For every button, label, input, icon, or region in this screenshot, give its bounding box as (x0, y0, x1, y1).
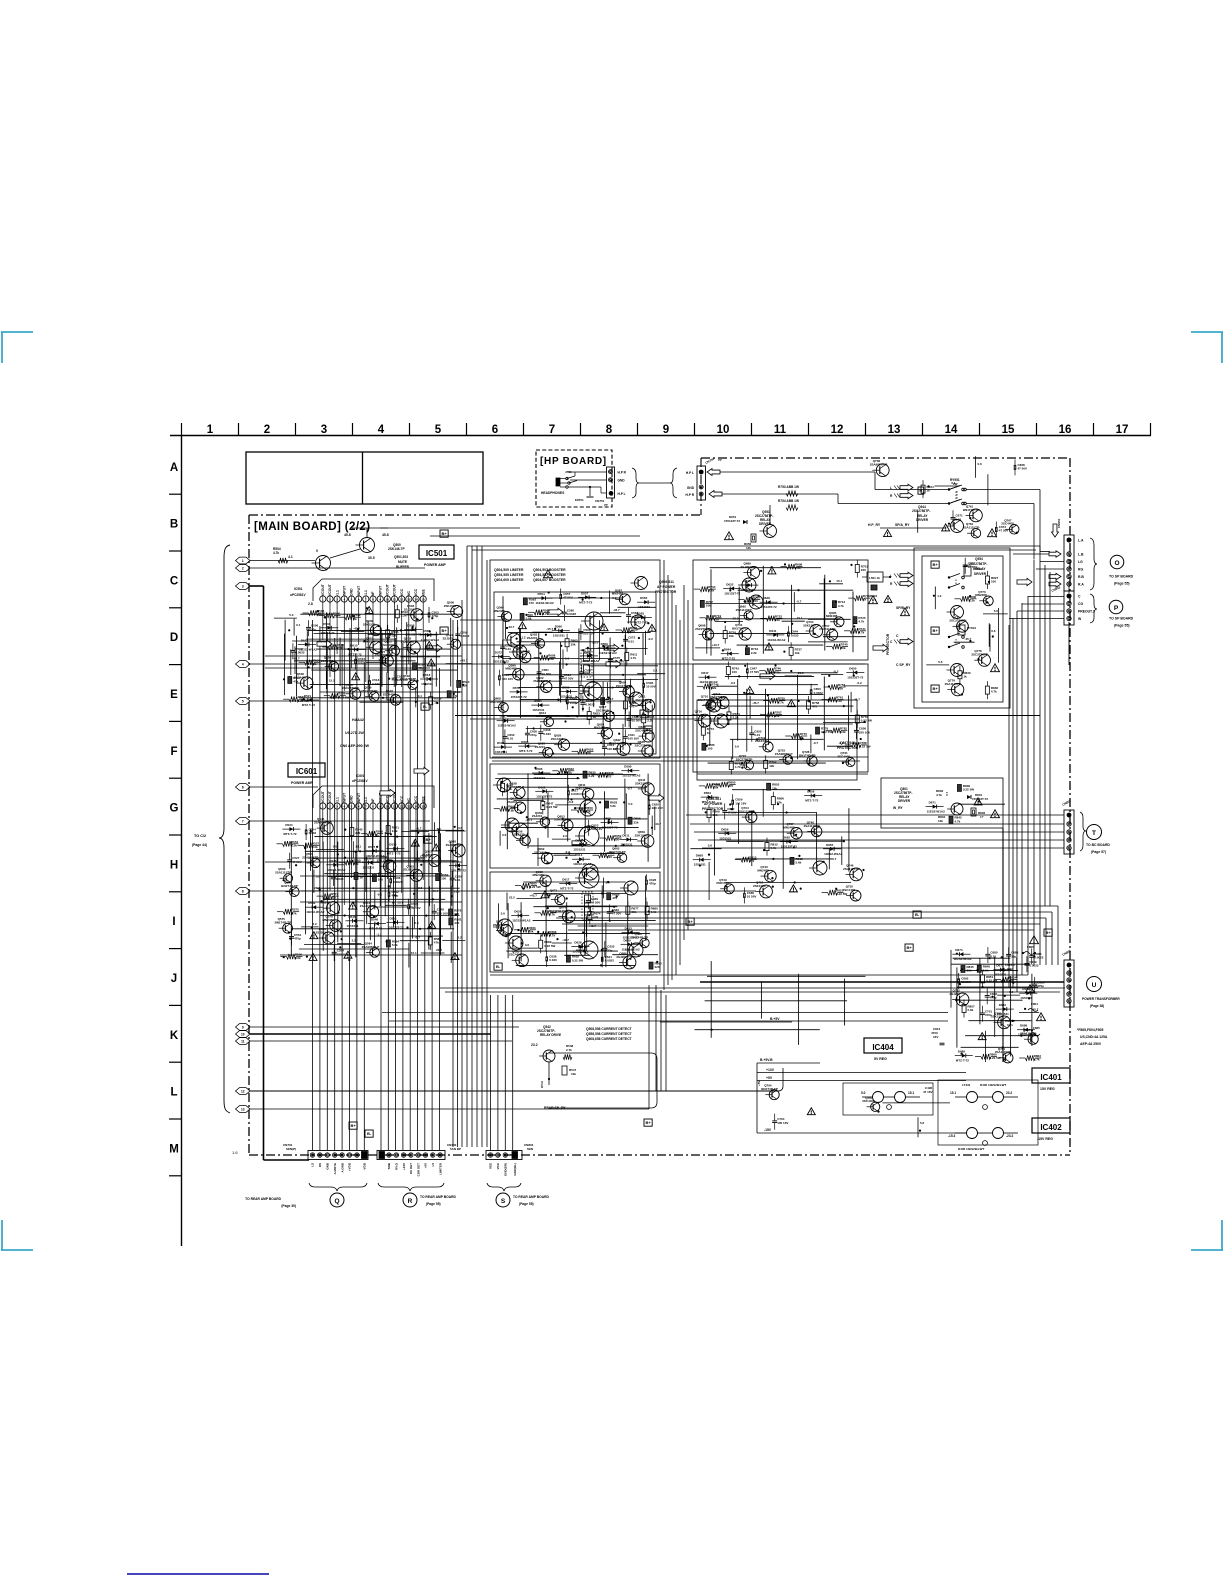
transistor QP18 (512, 823, 528, 839)
connector CN754 (697, 466, 706, 500)
resistor R701 (855, 564, 859, 572)
wire (552, 942, 572, 944)
svg-text:47 50V: 47 50V (292, 860, 302, 864)
wire pin 5 drop (351, 809, 353, 878)
wire (299, 948, 409, 950)
svg-text:11ES2-W1A2: 11ES2-W1A2 (824, 852, 843, 856)
svg-text:2SC4408: 2SC4408 (843, 888, 856, 892)
svg-text:2SC2786TP-: 2SC2786TP- (949, 619, 966, 623)
wire (516, 964, 636, 966)
wire box out1 (693, 560, 868, 660)
capacitor C566 (578, 631, 583, 633)
svg-text:2SJ201: 2SJ201 (741, 565, 752, 569)
svg-text:-0.7: -0.7 (565, 850, 571, 854)
wire (717, 685, 738, 687)
svg-text:-15V: -15V (764, 1128, 772, 1132)
resistor R821 (828, 890, 838, 895)
resistor R839 (957, 784, 961, 791)
diode D611 (626, 838, 630, 842)
pin 12 (399, 596, 405, 602)
transistor QP19 (582, 864, 598, 880)
diode D521 (308, 698, 312, 702)
wire (629, 679, 631, 729)
resistor R551 (386, 826, 390, 834)
transistor Q695 (834, 617, 844, 627)
svg-text:2: 2 (242, 566, 244, 570)
svg-text:14: 14 (945, 424, 958, 436)
diode D599 (628, 769, 632, 773)
wire (782, 804, 784, 889)
diode D551 (394, 920, 398, 924)
wire (622, 724, 624, 750)
svg-text:TO C/2: TO C/2 (194, 834, 206, 838)
svg-text:0.22 5W: 0.22 5W (530, 885, 541, 889)
diode D629 (627, 942, 631, 946)
svg-text:470p: 470p (649, 882, 656, 886)
wire (737, 804, 739, 844)
resistor R506 (324, 613, 334, 618)
svg-text:15: 15 (1002, 424, 1015, 436)
svg-text:2SC2786TP-: 2SC2786TP- (736, 757, 753, 761)
svg-text:2SC4408: 2SC4408 (635, 729, 648, 733)
wire bus CN702 risers (380, 628, 382, 1150)
transistor QP16 (580, 800, 596, 816)
wire (765, 689, 767, 742)
left group brace (219, 545, 230, 1113)
wire (917, 1117, 919, 1137)
transistor Q512 (370, 641, 383, 654)
wire (250, 1040, 512, 1042)
wire (759, 684, 818, 686)
diode D587 (504, 719, 508, 723)
resistor R569 (436, 874, 440, 881)
svg-text:3: 3 (321, 424, 327, 436)
svg-text:5.6k: 5.6k (295, 956, 301, 960)
resistor R716 (854, 595, 864, 600)
transistor Q563 (410, 869, 422, 881)
wire (627, 894, 629, 965)
wire pin 2 drop (329, 809, 331, 891)
svg-text:470: 470 (728, 784, 733, 788)
svg-text:4.7k: 4.7k (1034, 1058, 1040, 1062)
resistor R575 (283, 909, 293, 914)
svg-text:D557: D557 (581, 591, 589, 595)
pin (488, 1153, 492, 1157)
pin filled (512, 1152, 518, 1159)
warning triangle (901, 608, 910, 616)
wire (714, 723, 853, 725)
transistor Q569 (327, 902, 340, 915)
svg-text:5.6: 5.6 (920, 1121, 925, 1125)
wire (917, 510, 919, 533)
wire (934, 587, 936, 610)
svg-text:D620: D620 (514, 910, 522, 914)
transistor Q539 (369, 692, 379, 702)
svg-text:155133T-72: 155133T-72 (511, 695, 527, 699)
transistor Q620 (601, 728, 612, 739)
pin (503, 1153, 507, 1157)
wire (560, 642, 562, 703)
boxed label B+ (905, 944, 913, 951)
capacitor C572 (623, 638, 628, 640)
wire (810, 735, 812, 754)
svg-text:D548: D548 (371, 918, 379, 922)
svg-text:2SA1115TP-: 2SA1115TP- (275, 871, 292, 875)
svg-text:5.0: 5.0 (414, 921, 419, 925)
svg-text:D536: D536 (364, 857, 372, 861)
svg-text:1S51531: 1S51531 (495, 750, 507, 754)
capacitor C629 (586, 900, 591, 902)
transistor Q593 (535, 639, 545, 649)
resistor R785 (702, 743, 706, 750)
wire (534, 774, 583, 776)
wire box relay outer (914, 548, 1010, 708)
svg-text:-1.1: -1.1 (335, 797, 339, 803)
warning mark (789, 885, 797, 892)
wire (934, 485, 959, 487)
svg-text:2.2k: 2.2k (401, 613, 407, 617)
pin 10 (384, 596, 390, 602)
brace P (1090, 594, 1097, 623)
wire (507, 903, 509, 958)
warning mark (884, 530, 892, 537)
main board border top (249, 514, 701, 516)
resistor R956 boxed (751, 534, 756, 542)
pin 5 (348, 803, 354, 809)
capacitor C686 (1029, 955, 1034, 957)
transistor Q530 (300, 677, 313, 690)
transistor QP13 (509, 936, 523, 950)
svg-text:D581: D581 (562, 686, 570, 690)
warning (884, 595, 892, 602)
capacitor C698 (985, 995, 990, 997)
wire pin 13 drop (408, 809, 410, 866)
wire (578, 925, 649, 927)
svg-text:RY.O: RY.O (540, 1080, 544, 1088)
svg-text:MN2488: MN2488 (826, 614, 838, 618)
main board border left (248, 515, 250, 1155)
svg-text:-0.2: -0.2 (730, 681, 736, 685)
svg-text:2.2: 2.2 (352, 939, 357, 943)
transistor Q665 (617, 853, 626, 862)
transistor Q524 (329, 662, 339, 672)
svg-text:C SP_RY: C SP_RY (896, 663, 911, 667)
wire (608, 591, 610, 614)
wire (880, 527, 945, 529)
wire (250, 1108, 649, 1110)
wire thick right edge (1002, 828, 1004, 1062)
resistor R608 (540, 655, 550, 660)
wire (624, 779, 626, 799)
svg-text:470: 470 (749, 859, 754, 863)
wire (824, 575, 826, 651)
wire pin 10 drop (386, 809, 388, 879)
svg-text:MN2488: MN2488 (975, 593, 987, 597)
svg-text:GND: GND (350, 588, 354, 596)
capacitor C641 (600, 957, 602, 962)
transistor Q542 (390, 695, 401, 706)
svg-text:(Page 55): (Page 55) (1114, 582, 1130, 586)
svg-text:Q501,503: Q501,503 (394, 555, 408, 559)
diode D617 (566, 881, 570, 885)
svg-text:MTZ-T-72: MTZ-T-72 (805, 799, 818, 803)
wire (440, 833, 442, 955)
wire (588, 665, 658, 667)
wire (732, 740, 734, 760)
svg-text:0.1: 0.1 (418, 694, 423, 698)
svg-text:4.1: 4.1 (288, 555, 293, 559)
wire (695, 1029, 820, 1031)
svg-text:S: S (501, 1198, 506, 1205)
svg-text:10 50V: 10 50V (968, 565, 978, 569)
svg-text:MTZ-T-72: MTZ-T-72 (369, 927, 382, 931)
diode D593 (525, 744, 529, 748)
boxed label B- (913, 911, 921, 918)
diode D506 (411, 628, 415, 632)
svg-text:11ES2-W1A2: 11ES2-W1A2 (953, 957, 972, 961)
svg-text:45.8: 45.8 (382, 533, 389, 537)
svg-text:B+: B+ (932, 562, 938, 567)
svg-text:W_RY: W_RY (893, 806, 903, 810)
svg-text:2.8: 2.8 (308, 602, 313, 606)
transistor Q632 (617, 743, 630, 756)
pin (310, 1153, 314, 1157)
transistor Q704 (810, 625, 823, 638)
svg-text:100: 100 (732, 670, 737, 674)
resistor R698 (787, 564, 797, 569)
wire (584, 797, 586, 831)
svg-text:47 50V: 47 50V (750, 670, 760, 674)
svg-text:MN2488: MN2488 (494, 609, 506, 613)
pin 15 (420, 803, 426, 809)
pin 2 (327, 596, 333, 602)
wire (827, 745, 852, 747)
fuse F804 (1028, 1009, 1038, 1012)
resistor R788 (851, 742, 861, 747)
svg-text:0.22 5W: 0.22 5W (963, 788, 974, 792)
svg-text:15.1: 15.1 (836, 579, 842, 583)
wire box relay (922, 556, 1003, 702)
node 4 chevron (236, 661, 251, 668)
svg-text:H.P R: H.P R (618, 471, 627, 475)
resistor R740 (832, 644, 842, 649)
svg-text:4.7k: 4.7k (273, 551, 279, 555)
transistor Q797 (871, 1102, 880, 1111)
svg-text:12: 12 (241, 1089, 245, 1093)
svg-text:MTZ-T-72: MTZ-T-72 (387, 852, 400, 856)
transistor Q557 (429, 855, 441, 867)
diode D536 (368, 861, 372, 865)
resistor R617 (601, 698, 605, 705)
resistor R629 (578, 749, 588, 754)
resistor R590 (286, 954, 296, 959)
transistor Q656 (520, 835, 530, 845)
svg-text:47k: 47k (434, 941, 439, 945)
wire (371, 833, 373, 855)
transistor Q605 (623, 686, 634, 697)
svg-text:23.2: 23.2 (1006, 1091, 1012, 1095)
resistor R713 (832, 601, 836, 608)
wire (355, 851, 357, 957)
connector circle U (1087, 977, 1102, 992)
svg-text:D626: D626 (574, 940, 582, 944)
pin (387, 1153, 391, 1157)
svg-text:220 10V: 220 10V (437, 911, 448, 915)
svg-text:5.0: 5.0 (565, 657, 570, 661)
pin (355, 1153, 359, 1157)
svg-text:10k: 10k (841, 646, 846, 650)
transistor Q545 (321, 822, 334, 835)
svg-text:9: 9 (242, 1025, 244, 1029)
wire mid verticals (663, 560, 665, 990)
svg-text:33p: 33p (420, 858, 425, 862)
transistor Q515 (389, 646, 399, 656)
svg-text:15.1: 15.1 (950, 1091, 956, 1095)
svg-text:1S51531: 1S51531 (1020, 996, 1032, 1000)
brace left of CN754 (670, 468, 677, 498)
diode D659 (725, 831, 729, 835)
svg-text:GND: GND (687, 486, 695, 490)
signal arrow (1017, 578, 1032, 586)
wire (710, 961, 712, 1038)
wire pin 8 drop (372, 602, 374, 659)
resistor R806 (771, 797, 775, 805)
wire (965, 1035, 1039, 1037)
main board border right (1069, 458, 1071, 1155)
brace T (1080, 812, 1086, 851)
svg-text:D405 11ES2B4-WT: D405 11ES2B4-WT (980, 1083, 1007, 1087)
wire (498, 773, 623, 775)
warning (725, 532, 734, 540)
svg-text:5.6: 5.6 (735, 745, 740, 749)
wire (528, 845, 649, 847)
signal arrow (604, 644, 619, 652)
brace R (378, 1183, 444, 1191)
resistor R749 (703, 684, 713, 689)
svg-text:11ES2-W1A2: 11ES2-W1A2 (498, 724, 517, 728)
transistor Q788 (1028, 1034, 1038, 1044)
svg-text:7P: 7P (718, 458, 722, 462)
svg-text:23.2: 23.2 (531, 1043, 538, 1047)
diode D650 (853, 671, 857, 675)
wire (968, 1020, 1031, 1022)
diode D527 (372, 849, 376, 853)
svg-text:0.6: 0.6 (991, 629, 996, 633)
pin 3 (334, 596, 340, 602)
HP BOARD outline (536, 450, 612, 507)
wire (374, 890, 376, 909)
wire (715, 621, 743, 623)
svg-text:NF: NF (371, 591, 375, 596)
warning mark (942, 524, 950, 531)
resistor R773 (701, 727, 705, 735)
svg-text:BUFFER: BUFFER (396, 565, 410, 569)
diode D662 (787, 840, 791, 844)
svg-text:(Page 55): (Page 55) (519, 1202, 534, 1206)
pin 14 (413, 803, 419, 809)
node 5 chevron (236, 698, 251, 705)
svg-text:(Page 55): (Page 55) (1114, 624, 1130, 628)
wire box ch1 inner (494, 592, 656, 754)
svg-text:220: 220 (353, 862, 358, 866)
svg-text:47 50V: 47 50V (1018, 467, 1028, 471)
svg-text:1?: 1? (980, 815, 984, 819)
svg-text:5.0: 5.0 (289, 613, 294, 617)
transistor Q629 (558, 739, 569, 750)
svg-text:0.7: 0.7 (945, 791, 949, 796)
wire (502, 596, 504, 744)
boxed label B+ reg (644, 1119, 652, 1126)
warning mark (974, 798, 982, 805)
svg-text:P: P (1114, 605, 1119, 612)
svg-text:+VDB: +VDB (348, 1162, 352, 1171)
svg-text:TO SP BOARD: TO SP BOARD (1109, 575, 1134, 579)
svg-text:D665: D665 (826, 843, 834, 847)
resistor R554 (283, 841, 293, 846)
wire (816, 812, 818, 868)
svg-text:2SC4408: 2SC4408 (381, 643, 394, 647)
svg-text:0.1: 0.1 (296, 623, 301, 627)
svg-text:-0.7: -0.7 (415, 936, 421, 940)
svg-text:MN2488: MN2488 (783, 826, 795, 830)
svg-text:SP/B_RY: SP/B_RY (896, 606, 911, 610)
svg-text:D503: D503 (323, 622, 331, 626)
svg-text:2.2k: 2.2k (795, 566, 801, 570)
capacitor C701 (980, 1012, 985, 1014)
svg-text:47 50V: 47 50V (563, 596, 573, 600)
capacitor C665 (743, 893, 745, 898)
svg-text:Q604,605 LIMITER: Q604,605 LIMITER (494, 578, 524, 582)
wire (955, 999, 1023, 1001)
fuse F865 (1030, 1033, 1040, 1036)
svg-text:0.0022: 0.0022 (1029, 964, 1039, 968)
svg-text:4.7k: 4.7k (549, 912, 555, 916)
wire (823, 578, 825, 625)
diode D539 (456, 863, 460, 867)
warning mark (807, 1108, 815, 1115)
svg-text:2SC4408: 2SC4408 (551, 737, 564, 741)
wire (325, 612, 327, 689)
svg-text:15.1: 15.1 (908, 1091, 914, 1095)
pin 11 (391, 803, 397, 809)
svg-text:D: D (170, 632, 178, 644)
wire (450, 618, 452, 687)
diode D584 (538, 703, 542, 707)
svg-text:+43.7: +43.7 (460, 659, 468, 663)
transistor Q506 (451, 606, 463, 618)
wire (250, 663, 865, 665)
wire link (1039, 546, 1041, 552)
svg-text:GND(BR): GND(BR) (504, 1163, 508, 1176)
capacitor C644 (787, 632, 789, 637)
wire pin stubs P (1022, 603, 1064, 605)
capacitor C503 (427, 612, 429, 617)
svg-text:3: 3 (242, 584, 244, 588)
svg-text:-0.7: -0.7 (796, 599, 802, 603)
svg-text:4.7k: 4.7k (337, 647, 343, 651)
diode D572 (499, 655, 503, 659)
wire (553, 854, 575, 856)
svg-text:BN1T4R-TP: BN1T4R-TP (963, 508, 980, 512)
wire pin stubs O (1040, 561, 1064, 563)
svg-text:2SC2786TP-: 2SC2786TP- (695, 627, 712, 631)
svg-text:1k: 1k (593, 715, 597, 719)
wire (713, 809, 715, 876)
wire (710, 569, 712, 655)
diode D641 (773, 633, 777, 637)
svg-text:IC501: IC501 (294, 587, 303, 591)
resistor R803 (767, 783, 771, 790)
